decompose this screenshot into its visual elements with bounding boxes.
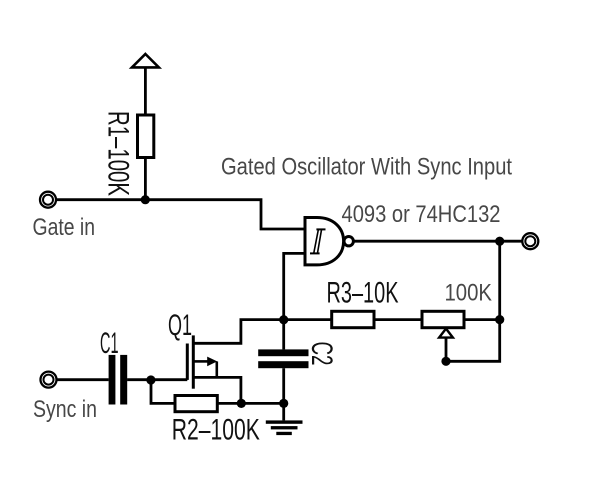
wire R1 to gate-in node [144, 158, 147, 200]
wire node down to C2 [282, 320, 285, 350]
potentiometer 100K body [422, 311, 464, 327]
wire output node down to pot node [498, 241, 501, 319]
wire sync in to C1 [57, 378, 109, 381]
junction node R1/gate-in [141, 195, 150, 204]
junction node output [495, 237, 504, 246]
wire power to R1 [144, 67, 147, 115]
gate output bubble [344, 237, 353, 246]
Q1 arrow vertical [216, 361, 219, 377]
power supply arrow [132, 54, 159, 67]
capacitor C2 plates [258, 349, 308, 356]
ground bar 2 [271, 426, 298, 429]
wire R2 left to sync node [151, 380, 175, 404]
Q1 drain wire [193, 320, 283, 344]
Q1 arrowhead [207, 357, 217, 367]
svg-text:R1–100K: R1–100K [102, 111, 135, 196]
junction node ground [279, 399, 288, 408]
pot wiper arrow [439, 329, 453, 338]
hysteresis slant left [314, 230, 319, 253]
transistor Q1 channel bar [192, 335, 195, 388]
ground bar 1 [266, 420, 303, 423]
wire gate input 2 [284, 253, 305, 319]
wire wiper [445, 338, 448, 362]
capacitor C1 plates [109, 355, 116, 405]
svg-text:C2: C2 [305, 342, 338, 366]
ground bar 3 [276, 432, 292, 435]
resistor R3 [332, 311, 374, 327]
junction node wiper [441, 357, 450, 366]
Q1 body arrow line [193, 360, 208, 363]
hysteresis symbol top bar [316, 228, 325, 230]
gate-in terminal [40, 192, 56, 208]
wire ground node left to R2 [217, 402, 284, 405]
wire pot node down and left to wiper [446, 320, 500, 362]
junction node pot right [495, 315, 504, 324]
svg-text:Gated Oscillator With Sync Inp: Gated Oscillator With Sync Input [221, 154, 512, 181]
wire pot to right node [464, 318, 500, 321]
svg-text:R2–100K: R2–100K [172, 414, 260, 447]
svg-text:Gate in: Gate in [33, 214, 96, 241]
wire node to R3 [284, 318, 332, 321]
wire C2 to ground node [282, 368, 285, 403]
svg-text:100K: 100K [445, 280, 493, 307]
transistor Q1 gate bar [186, 344, 189, 380]
junction node center [279, 315, 288, 324]
resistor R1 [138, 115, 154, 158]
resistor R2 [175, 396, 217, 412]
wire Gate in horizontal [57, 200, 306, 229]
wire gate output [353, 240, 521, 243]
svg-text:4093 or 74HC132: 4093 or 74HC132 [342, 201, 501, 228]
junction node sync [146, 375, 155, 384]
hysteresis symbol bottom bar [310, 252, 320, 254]
svg-text:R3–10K: R3–10K [327, 276, 399, 309]
ground stem [282, 403, 285, 420]
hysteresis slant right [318, 230, 322, 253]
wire C1 to sync node and Q1 gate [127, 378, 187, 381]
svg-text:Q1: Q1 [168, 309, 192, 342]
svg-text:C1: C1 [100, 327, 119, 360]
Q1 source wire [193, 377, 241, 403]
wire R3 to pot [374, 318, 422, 321]
output terminal [522, 233, 538, 249]
junction node R2 right [237, 399, 246, 408]
svg-text:Sync in: Sync in [33, 396, 97, 423]
sync-in terminal [41, 372, 57, 388]
op-amp U1 NAND gate body [305, 218, 344, 265]
